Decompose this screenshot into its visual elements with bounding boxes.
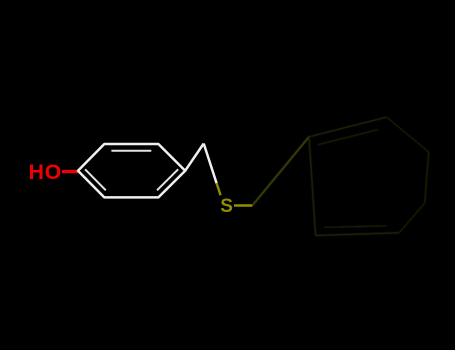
bond CH2-S lower part near sulfur (olive) (217, 183, 221, 195)
bond S-CH2' (olive stub right of S) (234, 204, 253, 207)
svg-text:HO: HO (29, 161, 63, 184)
bond C4-CH2 (ring to methylene, white) (185, 144, 204, 171)
double bond inner line top-left edge right ring (318, 130, 379, 145)
double bond inner line right edge right ring (421, 158, 423, 199)
bond CH2'-C1' (dim olive leg up to right ring) (253, 137, 310, 206)
benzene ring right near edges (left vertical, top-left, bottom) (309, 117, 399, 235)
benzene ring left (phenol ring outline) (78, 144, 185, 197)
double bond inner line top edge left ring (111, 150, 151, 152)
double bond inner line lower-right edge left ring (157, 169, 178, 190)
double bond inner line bottom edge right ring (324, 226, 386, 228)
bond O-C1 (red stub from HO to ring) (62, 170, 79, 173)
bond CH2-S upper part (white) (204, 144, 217, 184)
double bond inner line lower-left edge left ring (85, 169, 106, 190)
svg-text:S: S (220, 196, 233, 217)
benzene ring right far edges (top-right, right, bottom-right) (387, 117, 429, 233)
